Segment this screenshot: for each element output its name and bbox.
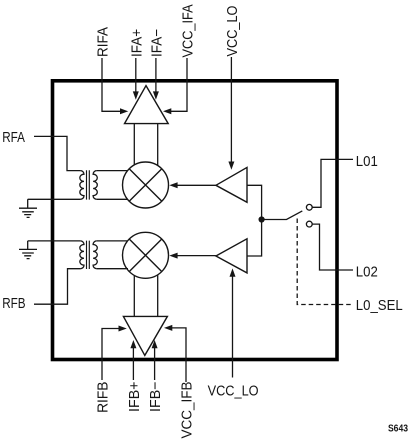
svg-text:IFA−: IFA− [149,29,166,57]
wire LO_SEL dashed [297,219,353,305]
wire amp B input tails [134,275,157,317]
svg-text:IFB+: IFB+ [127,382,143,412]
wire LO buffer B input [247,223,262,257]
wire VCC_IFA lead [171,58,187,111]
wire VCC_LO bottom lead [232,276,234,377]
svg-text:RFB: RFB [2,295,25,312]
arrowhead LO buffer A to mixer A [169,182,177,188]
transformer T2 core [87,241,90,269]
switch contact LO1 [306,204,312,210]
wire IFA+ lead [135,58,137,92]
svg-text:IFA+: IFA+ [129,29,146,57]
svg-text:L01: L01 [356,152,378,169]
svg-text:RIFA: RIFA [95,27,112,57]
wire VCC_LO top lead [230,57,232,162]
arrowhead VCC_LO bottom [230,268,236,276]
wire LO common to switch [265,211,303,220]
wire VCC_IFB lead [172,328,187,382]
ground B [19,249,37,258]
arrowhead RIFB [119,326,127,332]
svg-text:IFB−: IFB− [148,382,164,412]
switch contact LO2 [306,221,312,227]
svg-text:VCC_IFA: VCC_IFA [178,4,195,58]
wire RIFB lead [102,329,119,381]
wire T1 secondary to mixer A [97,171,128,200]
arrowhead IFB+ [130,340,136,348]
arrowhead VCC_LO top [228,162,234,170]
op-amp U3 IF amplifier B [123,316,167,355]
op-amp U4 LO buffer B [216,239,247,273]
wire RFA lead [34,136,80,170]
arrowhead VCC_IFA [163,108,171,114]
wire T2 secondary to mixer B [97,241,128,269]
arrowhead IFB- [152,340,158,348]
arrowhead RIFA [120,108,128,114]
transformer T1 primary winding [80,171,84,200]
outer box [53,81,338,360]
arrowhead IFA- [153,91,159,99]
svg-text:VCC_LO: VCC_LO [208,381,259,398]
wire RFB lead [34,269,80,305]
transformer T2 secondary winding [93,241,97,269]
svg-text:RFA: RFA [2,129,25,146]
wire LO2 [312,224,353,270]
svg-text:S643: S643 [388,423,408,434]
svg-text:L02: L02 [356,263,378,280]
transformer T2 primary winding [80,241,84,269]
arrowhead LO buffer B to mixer B [169,253,177,259]
wire amp A output tails [134,124,157,166]
wire RIFA lead [102,58,120,111]
wire LO1 [312,159,353,207]
wire IFA- lead [155,58,157,92]
svg-text:VCC_IFB: VCC_IFB [179,382,196,439]
transformer T1 secondary winding [93,171,97,200]
wire LO buffer A input [247,185,262,216]
svg-text:VCC_LO: VCC_LO [223,5,240,56]
svg-text:L0_SEL: L0_SEL [356,296,403,313]
ground A [19,208,37,217]
mixer B circle [123,232,169,278]
arrowhead IFA+ [133,91,139,99]
op-amp U1 IF amplifier A [125,86,169,124]
transformer T1 core [87,170,90,199]
op-amp U2 LO buffer A [216,167,247,202]
wire T1 primary to ground [28,199,81,208]
wire LO buffer A output [177,184,216,186]
wire IFB+ lead [132,348,134,380]
svg-text:RIFB: RIFB [95,382,112,413]
node LO common junction [259,216,265,222]
wire T2 primary to ground [28,241,81,250]
arrowhead VCC_IFB [164,325,172,331]
mixer A circle [123,162,169,208]
wire IFB- lead [154,348,156,380]
wire LO buffer B output [177,255,216,257]
